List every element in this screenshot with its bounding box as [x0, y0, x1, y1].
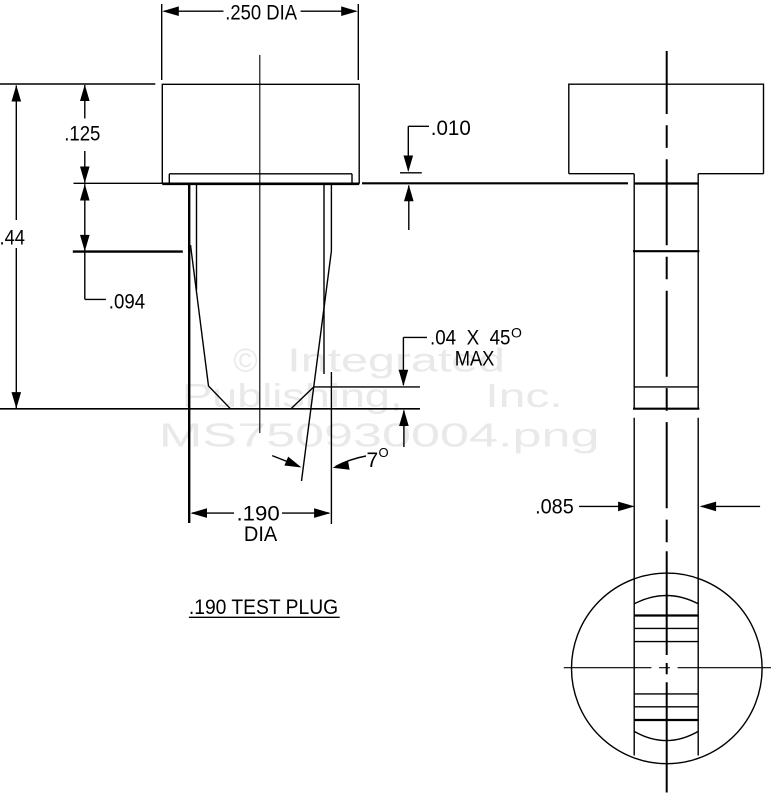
svg-text:DIA: DIA: [244, 523, 277, 546]
bottom face line: [0, 408, 420, 410]
right view: thin line 4: [634, 706, 698, 708]
right view: thin line 2: [634, 641, 698, 643]
right view: horizontal centerline short dash: [659, 667, 670, 669]
.094 level line (thick): [73, 250, 183, 252]
arrowhead .190 right: [314, 508, 331, 518]
right view: thick band line upper in circle: [634, 614, 698, 616]
left view: chamfer right: [291, 387, 314, 409]
.04 lower arrow tail: [403, 411, 405, 448]
.010 leader: [408, 126, 429, 170]
.250 DIA dimension line right segment: [301, 10, 356, 12]
arrowhead .04 up: [399, 410, 409, 427]
arrowhead .250 left: [162, 6, 179, 16]
.085 dimension line left: [579, 505, 632, 507]
right view: shaft left edge upper: [633, 174, 635, 409]
left view: taper line left (7 deg): [191, 245, 209, 386]
.010 lower arrow tail: [408, 186, 410, 231]
title underline: [189, 616, 340, 618]
7 deg curved leader right: [336, 456, 367, 467]
.125 dimension line lower: [84, 151, 86, 183]
arrowhead .44 top: [12, 85, 22, 102]
right view: bottom face line (thick): [633, 408, 699, 410]
svg-text:.190 TEST PLUG: .190 TEST PLUG: [189, 596, 338, 619]
arrowhead .085 right (points left): [700, 502, 717, 512]
svg-text:.190: .190: [237, 502, 280, 525]
.250 DIA dimension line left segment: [164, 10, 224, 12]
.44 dimension line upper: [15, 86, 17, 221]
.250 DIA left extension line: [161, 4, 163, 80]
svg-text:.085: .085: [535, 495, 574, 518]
.44 dimension line lower: [15, 248, 17, 408]
.085 dimension line right: [702, 505, 761, 507]
arrowhead .250 right: [341, 6, 358, 16]
right view: thin line 3: [634, 693, 698, 695]
left view: taper line right with extension (7 deg callout): [302, 251, 332, 481]
left view: outer wall left (thick, continues as .190 extension): [188, 184, 190, 523]
svg-text:.04 X 45: .04 X 45: [430, 326, 511, 349]
right view: shaft left edge lower: [633, 418, 635, 756]
right view: thick band line lower in circle: [634, 719, 698, 721]
right view: arc bottom inside shaft: [634, 731, 698, 740]
right view: chamfer top line: [634, 386, 698, 388]
left view: lip top line: [169, 173, 352, 175]
right view: cap outline: [569, 84, 764, 174]
left view: lip left tick: [168, 174, 170, 184]
arrowhead .010 down: [404, 156, 414, 173]
.190 dimension line left segment: [192, 512, 234, 514]
right view: shaft right edge upper: [697, 174, 699, 409]
.094 leader horizontal: [85, 298, 106, 300]
.250 DIA right extension line: [357, 4, 359, 80]
right view: arc top inside shaft: [634, 596, 698, 604]
right view: vertical centerline (dash-dot): [666, 51, 668, 793]
right view: cap bottom right segment: [698, 173, 763, 175]
7 deg short leader left: [272, 456, 298, 466]
arrowhead .04 down: [399, 370, 409, 387]
svg-text:O: O: [511, 325, 522, 341]
svg-text:7: 7: [367, 449, 379, 472]
svg-text:MAX: MAX: [455, 347, 495, 370]
arrowhead .010 up: [404, 185, 414, 202]
right view: lip bottom line in shaft (thick): [634, 182, 698, 184]
lip bottom extension to left: [74, 182, 163, 184]
left view: right extension line for .190: [330, 372, 332, 524]
right view: horizontal centerline long left: [564, 667, 652, 669]
left view: lip right tick: [351, 174, 353, 184]
left view: cap outline: [162, 84, 359, 184]
.190 dimension line right segment: [282, 512, 329, 514]
right view: thin line 1: [634, 627, 698, 629]
arrowhead .44 bottom: [12, 392, 22, 409]
svg-text:.010: .010: [431, 117, 471, 140]
svg-text:O: O: [379, 445, 389, 460]
right view: cap bottom left segment: [569, 173, 634, 175]
arrowhead .125 top: [80, 85, 90, 102]
chamfer top extension line: [314, 386, 420, 388]
.04 X 45 leader: [403, 337, 427, 385]
svg-text:©: ©: [233, 342, 257, 379]
right view: horizontal centerline long right: [678, 667, 771, 669]
cap-bottom extension line to right view (thick): [362, 182, 628, 184]
arrowhead .094 bottom: [80, 235, 90, 252]
left view: cap bottom (thick): [162, 183, 359, 186]
arrowhead .190 left: [191, 508, 208, 518]
svg-text:.125: .125: [64, 122, 100, 145]
svg-text:.44: .44: [0, 227, 25, 250]
left view: inner wall right: [323, 184, 325, 374]
right view: circle (end ball): [572, 573, 763, 764]
left view: inner wall left: [196, 184, 198, 290]
arrowhead .094 top: [80, 184, 90, 201]
right view: line at .094 level (thick): [633, 250, 699, 252]
.010 lip top short extension: [400, 172, 422, 174]
left view: centerline: [259, 55, 261, 433]
arrowhead .125 bottom: [80, 167, 90, 184]
right view: shaft right edge lower: [697, 418, 699, 756]
svg-text:.094: .094: [109, 291, 146, 314]
left view: outer wall right: [330, 184, 332, 251]
.094 dimension line with tail: [84, 184, 86, 299]
arrowhead .085 left (points right): [618, 502, 635, 512]
top extension line at cap top: [0, 83, 155, 85]
left view: chamfer left: [209, 386, 231, 409]
arrowhead 7deg right (points left at wall extension line): [333, 460, 350, 470]
.125 dimension line upper: [84, 85, 86, 119]
svg-text:Inc.: Inc.: [485, 377, 562, 414]
arrowhead 7deg left (points right at taper line): [284, 457, 301, 468]
svg-text:.250 DIA: .250 DIA: [225, 1, 297, 24]
